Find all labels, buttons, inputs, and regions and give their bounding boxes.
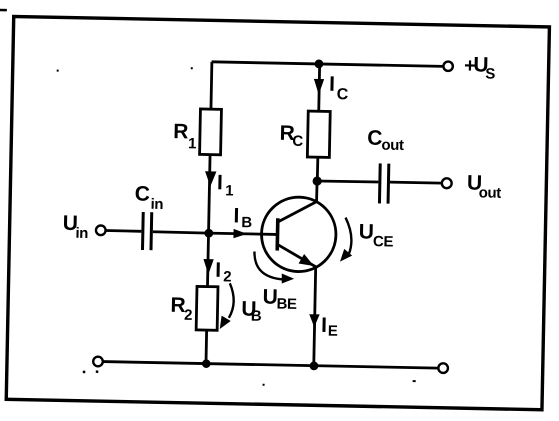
svg-text:CE: CE xyxy=(373,233,394,250)
svg-text:S: S xyxy=(485,65,495,82)
svg-text:I: I xyxy=(215,259,221,282)
svg-text:U: U xyxy=(359,220,375,243)
svg-text:E: E xyxy=(328,323,338,340)
svg-text:out: out xyxy=(479,184,502,201)
svg-text:2: 2 xyxy=(223,268,231,285)
svg-text:out: out xyxy=(381,137,404,154)
svg-text:I: I xyxy=(329,73,335,96)
svg-text:I: I xyxy=(233,204,239,227)
svg-text:R: R xyxy=(173,120,189,143)
svg-text:in: in xyxy=(75,225,88,242)
svg-text:2: 2 xyxy=(184,307,192,324)
svg-text:C: C xyxy=(367,127,383,150)
svg-text:1: 1 xyxy=(225,182,233,199)
svg-text:B: B xyxy=(251,308,262,325)
svg-text:C: C xyxy=(135,182,151,205)
svg-text:I: I xyxy=(321,314,327,337)
svg-text:I: I xyxy=(217,171,223,194)
svg-text:in: in xyxy=(150,196,163,213)
svg-text:BE: BE xyxy=(276,296,297,313)
svg-text:B: B xyxy=(241,214,252,231)
svg-text:C: C xyxy=(292,133,303,150)
svg-text:1: 1 xyxy=(188,135,196,152)
svg-text:C: C xyxy=(337,86,349,103)
